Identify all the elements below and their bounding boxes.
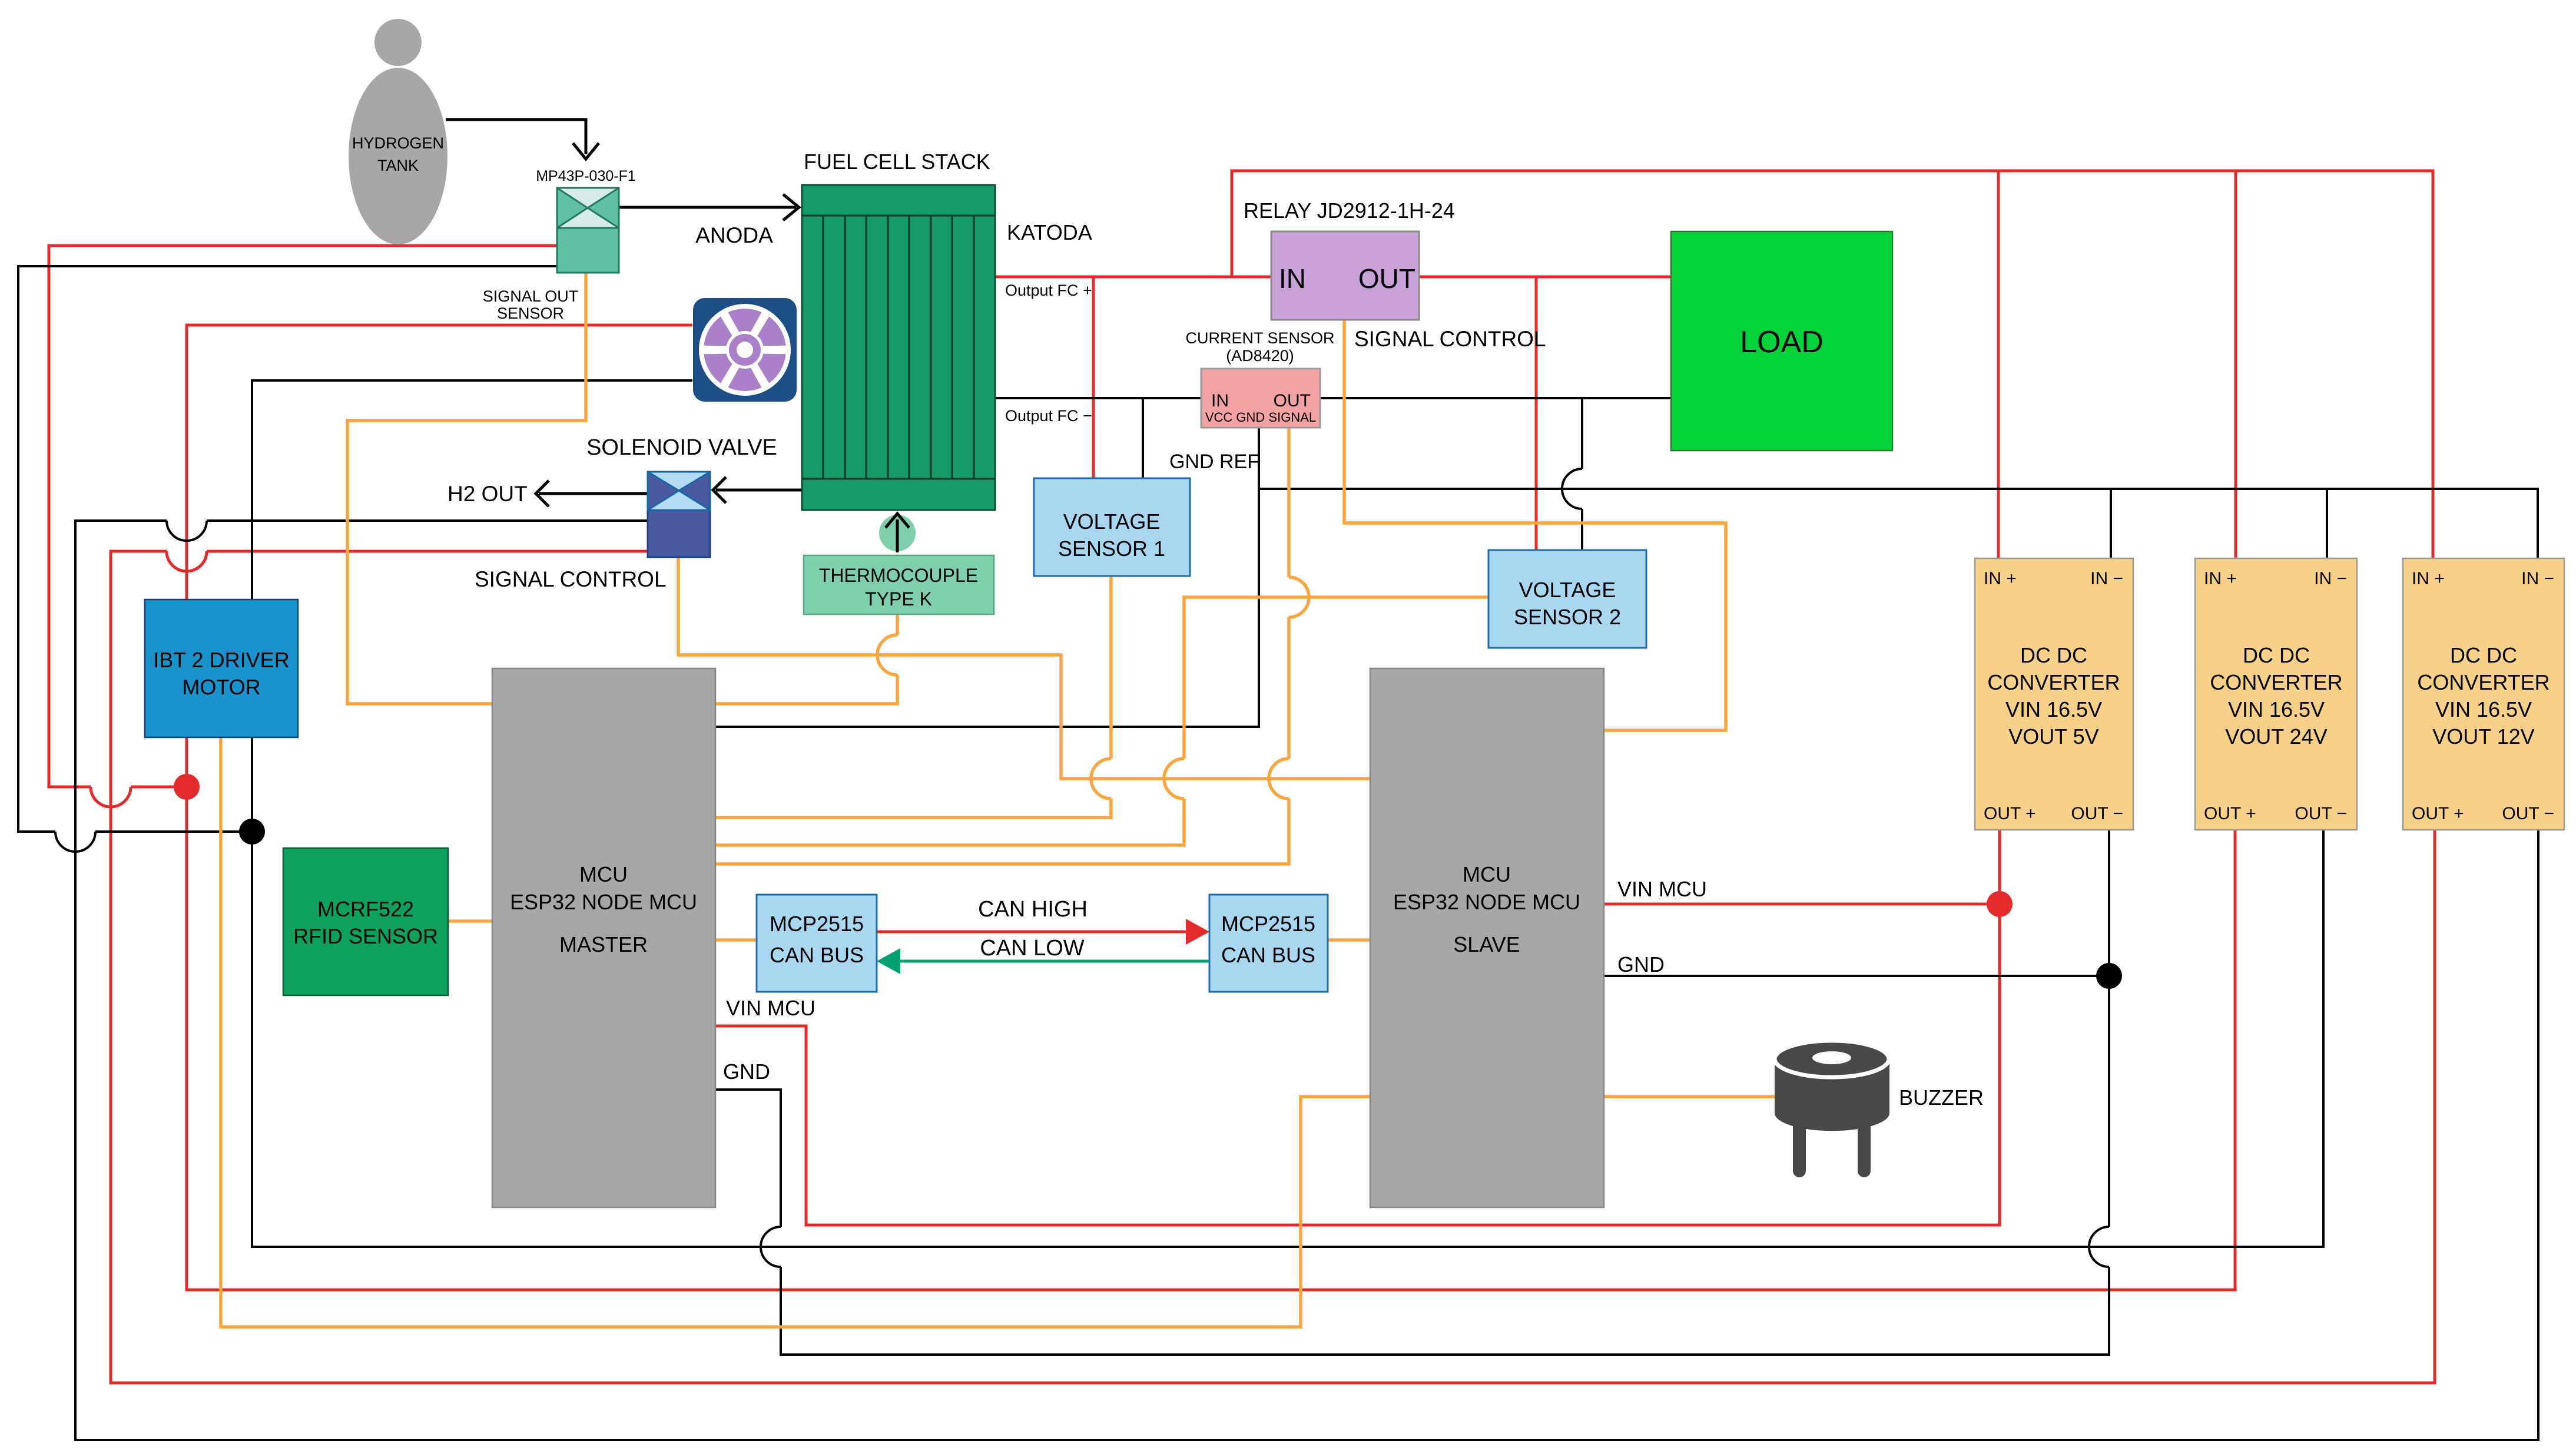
- svg-text:OUT: OUT: [1274, 391, 1311, 410]
- svg-text:ESP32 NODE MCU: ESP32 NODE MCU: [510, 890, 697, 914]
- arrow red CAN HIGH: [877, 931, 1195, 933]
- svg-text:GND: GND: [723, 1060, 770, 1084]
- svg-text:VOUT 12V: VOUT 12V: [2432, 724, 2534, 749]
- svg-text:ANODA: ANODA: [695, 223, 773, 247]
- voltage sensor 1: [1034, 478, 1190, 576]
- svg-text:OUT −: OUT −: [2502, 804, 2554, 823]
- arrow black H2 OUT: [539, 492, 648, 495]
- voltage sensor 2: [1488, 550, 1646, 648]
- svg-text:H2 OUT: H2 OUT: [447, 482, 528, 506]
- svg-text:VIN MCU: VIN MCU: [726, 996, 815, 1020]
- svg-text:HYDROGEN: HYDROGEN: [352, 134, 444, 152]
- wire orange current sensor signal to MCU master: [715, 428, 1289, 864]
- wire black current sensor GND to MCU master: [715, 428, 1259, 727]
- svg-text:KATODA: KATODA: [1007, 220, 1092, 244]
- svg-text:THERMOCOUPLE: THERMOCOUPLE: [819, 565, 978, 586]
- wire red fan supply to DC2 OUT+: [187, 325, 2235, 1290]
- svg-text:TANK: TANK: [377, 157, 419, 174]
- svg-text:IN +: IN +: [2204, 569, 2237, 588]
- arrow green CAN LOW: [891, 960, 1209, 963]
- svg-text:IN +: IN +: [1984, 569, 2017, 588]
- wire black GND net master to DC1 OUT- and slave: [715, 830, 2109, 1355]
- svg-text:CAN HIGH: CAN HIGH: [978, 897, 1088, 922]
- svg-text:SLAVE: SLAVE: [1453, 932, 1520, 956]
- svg-text:IN +: IN +: [2412, 569, 2445, 588]
- svg-text:OUT +: OUT +: [2204, 804, 2256, 823]
- wire black tee to voltage sensor 1: [1142, 398, 1144, 478]
- svg-text:IN: IN: [1279, 263, 1306, 294]
- wire red top rail to DC converters IN+: [1232, 171, 2433, 558]
- svg-text:DC DC: DC DC: [2020, 643, 2087, 667]
- junction dot red (IBT2): [174, 774, 200, 800]
- svg-text:SENSOR: SENSOR: [497, 304, 564, 322]
- wire orange relay signal control to MCU slave: [1344, 320, 1726, 730]
- fan icon: [693, 298, 797, 402]
- svg-text:CONVERTER: CONVERTER: [2417, 670, 2550, 694]
- svg-text:CAN LOW: CAN LOW: [980, 936, 1084, 961]
- wire black solenoid ground to DC3 OUT-: [75, 521, 2538, 1440]
- svg-text:OUT −: OUT −: [2071, 804, 2123, 823]
- svg-text:IN −: IN −: [2521, 569, 2554, 588]
- svg-text:MASTER: MASTER: [559, 932, 648, 956]
- wire orange MCU master to MCP2515: [715, 938, 757, 942]
- junction dot black (IBT2): [239, 819, 265, 845]
- wire orange solenoid signal to MCU slave: [678, 557, 1370, 779]
- svg-text:CAN BUS: CAN BUS: [1221, 943, 1315, 967]
- svg-text:MCU: MCU: [1463, 862, 1511, 886]
- svg-text:IBT 2 DRIVER: IBT 2 DRIVER: [153, 648, 289, 672]
- thermocouple circle and arrow: [879, 514, 916, 552]
- wire red solenoid supply to DC3 OUT+: [111, 551, 2435, 1383]
- svg-text:MCP2515: MCP2515: [1221, 912, 1315, 936]
- svg-text:OUT −: OUT −: [2295, 804, 2347, 823]
- svg-text:OUT: OUT: [1358, 263, 1415, 294]
- DC DC converter 1: [1975, 558, 2133, 830]
- wire orange MCRF522 to MCU master: [448, 919, 492, 923]
- svg-text:VOLTAGE: VOLTAGE: [1063, 509, 1161, 534]
- arrow black hydrogen tank to MP43P valve: [446, 120, 586, 154]
- DC DC converter 2: [2195, 558, 2357, 830]
- wire orange MCP2515 to MCU slave: [1328, 938, 1370, 942]
- DC DC converter 3: [2403, 558, 2564, 830]
- svg-text:GND REF: GND REF: [1169, 451, 1259, 473]
- svg-text:SOLENOID VALVE: SOLENOID VALVE: [586, 435, 777, 460]
- svg-text:VIN 16.5V: VIN 16.5V: [2228, 697, 2325, 721]
- wire orange MP43P signal to MCU master: [347, 273, 586, 704]
- wire orange thermocouple signal to MCU master: [715, 614, 897, 704]
- wire black tee to voltage sensor 2 with hop: [1581, 398, 1583, 550]
- wire orange voltage sensor 2 signal to MCU master: [715, 597, 1488, 845]
- MCP2515 CAN bus right: [1209, 895, 1328, 992]
- svg-text:MP43P-030-F1: MP43P-030-F1: [536, 168, 636, 184]
- arrow black ANODA valve to stack: [619, 206, 796, 209]
- svg-text:RELAY JD2912-1H-24: RELAY JD2912-1H-24: [1244, 198, 1455, 223]
- svg-text:VIN 16.5V: VIN 16.5V: [2005, 697, 2102, 721]
- wire red tee to voltage sensor 1: [1092, 277, 1095, 478]
- svg-text:LOAD: LOAD: [1740, 325, 1824, 359]
- MCU ESP32 master: [492, 668, 715, 1207]
- svg-text:VIN 16.5V: VIN 16.5V: [2435, 697, 2532, 721]
- svg-text:Output FC +: Output FC +: [1005, 282, 1092, 299]
- wire orange voltage sensor 1 signal to MCU master: [715, 576, 1111, 817]
- svg-text:SENSOR 1: SENSOR 1: [1058, 537, 1165, 561]
- svg-text:Output FC −: Output FC −: [1005, 407, 1092, 425]
- fuel cell stack: [802, 150, 995, 510]
- svg-text:BUZZER: BUZZER: [1899, 1085, 1984, 1110]
- svg-text:MCP2515: MCP2515: [770, 912, 864, 936]
- buzzer icon: [1775, 1041, 1889, 1171]
- wire black GND REF rail to DC converters IN-: [1259, 489, 2538, 558]
- svg-text:VOUT 5V: VOUT 5V: [2008, 724, 2098, 749]
- svg-text:FUEL CELL STACK: FUEL CELL STACK: [804, 150, 990, 174]
- svg-text:MOTOR: MOTOR: [182, 675, 260, 699]
- svg-text:MCU: MCU: [579, 862, 628, 886]
- svg-text:SIGNAL CONTROL: SIGNAL CONTROL: [1354, 327, 1546, 351]
- arrow black stack to solenoid valve: [716, 489, 802, 492]
- svg-text:VIN MCU: VIN MCU: [1617, 877, 1707, 901]
- current sensor AD8420: [1185, 329, 1334, 428]
- thermocouple type K box: [804, 555, 994, 614]
- hydrogen tank icon: [349, 19, 447, 244]
- wire orange MCU slave to buzzer: [1604, 1095, 1775, 1098]
- svg-text:OUT +: OUT +: [1984, 804, 2036, 823]
- MCU ESP32 slave: [1370, 668, 1604, 1207]
- svg-text:VCC GND SIGNAL: VCC GND SIGNAL: [1205, 410, 1316, 425]
- svg-text:VOLTAGE: VOLTAGE: [1519, 578, 1616, 602]
- wire red Output FC + to relay IN: [995, 276, 1271, 279]
- wire black fan ground to DC2 OUT-: [252, 380, 2323, 1247]
- svg-text:SIGNAL OUT: SIGNAL OUT: [483, 287, 579, 305]
- valve MP43P-030-F1: [536, 168, 636, 273]
- svg-text:ESP32 NODE MCU: ESP32 NODE MCU: [1393, 890, 1580, 914]
- wire black MP43P ground: [18, 266, 557, 832]
- svg-text:SENSOR 2: SENSOR 2: [1514, 605, 1621, 629]
- wire black Output FC - line: [995, 397, 1671, 399]
- svg-text:CAN BUS: CAN BUS: [770, 943, 864, 967]
- svg-text:CONVERTER: CONVERTER: [2210, 670, 2342, 694]
- MCRF522 RFID sensor: [283, 848, 448, 995]
- wire red relay OUT to LOAD: [1419, 276, 1671, 279]
- svg-text:(AD8420): (AD8420): [1226, 347, 1294, 365]
- svg-text:DC DC: DC DC: [2450, 643, 2517, 667]
- svg-text:CURRENT SENSOR: CURRENT SENSOR: [1185, 329, 1334, 347]
- MCP2515 CAN bus left: [757, 895, 877, 992]
- svg-text:RFID SENSOR: RFID SENSOR: [293, 924, 438, 948]
- svg-text:TYPE K: TYPE K: [865, 588, 932, 610]
- svg-text:GND: GND: [1617, 952, 1665, 976]
- wire red tee to voltage sensor 2: [1535, 277, 1538, 550]
- svg-text:MCRF522: MCRF522: [317, 897, 414, 921]
- svg-text:IN −: IN −: [2090, 569, 2123, 588]
- svg-text:DC DC: DC DC: [2243, 643, 2310, 667]
- wire orange IBT2 signal to MCU slave: [221, 737, 1370, 1327]
- svg-text:CONVERTER: CONVERTER: [1987, 670, 2120, 694]
- junction dot red (VIN slave): [1987, 891, 2013, 917]
- IBT 2 driver motor: [145, 600, 298, 737]
- svg-text:OUT +: OUT +: [2412, 804, 2464, 823]
- svg-text:SIGNAL CONTROL: SIGNAL CONTROL: [475, 567, 667, 591]
- junction dot black (GND slave): [2096, 963, 2122, 989]
- wire red VIN net MCU master to DC1 OUT+ and slave: [715, 830, 2000, 1225]
- wire red MP43P supply: [49, 246, 557, 787]
- svg-text:IN: IN: [1211, 391, 1229, 410]
- relay JD2912-1H-24: [1244, 198, 1455, 320]
- svg-text:IN −: IN −: [2314, 569, 2347, 588]
- svg-text:VOUT 24V: VOUT 24V: [2225, 724, 2327, 749]
- solenoid valve: [586, 435, 777, 557]
- LOAD box: [1671, 231, 1892, 451]
